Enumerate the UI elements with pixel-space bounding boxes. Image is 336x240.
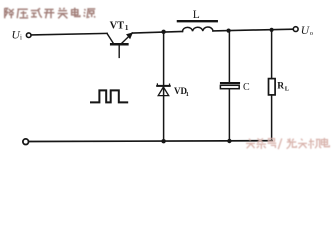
svg-text:R: R	[277, 82, 284, 92]
svg-text:1: 1	[186, 92, 189, 98]
svg-text:L: L	[193, 9, 200, 21]
svg-text:C: C	[243, 82, 250, 93]
svg-text:L: L	[285, 86, 290, 93]
svg-text:1: 1	[125, 23, 129, 32]
svg-text:o: o	[310, 30, 313, 37]
svg-text:U: U	[301, 25, 310, 37]
svg-text:VT: VT	[110, 20, 125, 31]
svg-text:i: i	[20, 34, 22, 42]
